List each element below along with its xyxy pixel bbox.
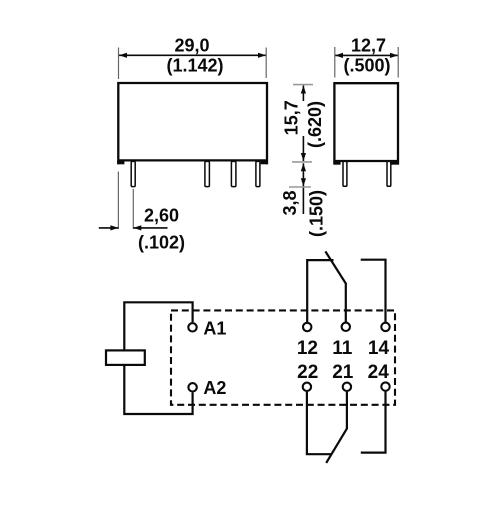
terminal 24 xyxy=(381,382,389,390)
coil wire bottom xyxy=(124,365,192,415)
right foot of side view case xyxy=(261,160,268,164)
pin 1 of side view xyxy=(131,161,135,186)
dimension 3,8 vertical line with arrows xyxy=(302,163,304,214)
svg-text:12: 12 xyxy=(297,338,318,359)
extension line left 12,7 xyxy=(334,47,336,78)
svg-text:14: 14 xyxy=(368,338,390,359)
arrow right of 29,0 xyxy=(258,53,266,58)
svg-text:22: 22 xyxy=(297,362,318,383)
svg-text:24: 24 xyxy=(368,362,390,383)
svg-text:29,0: 29,0 xyxy=(174,36,209,56)
dimension 15,7 vertical line upper segment with up arrow xyxy=(302,86,304,102)
tick at case bottom for 15,7 xyxy=(292,161,312,163)
contact 24 wire and fixed bar xyxy=(361,392,386,453)
left foot of side view case xyxy=(117,160,124,164)
svg-text:2,60: 2,60 xyxy=(144,206,179,226)
dimension line right 2,60 with arrow xyxy=(133,227,167,229)
extension line below pin 1 xyxy=(132,189,134,229)
dimension line 29,0 xyxy=(119,54,266,56)
dimension line left 2,60 with arrow xyxy=(99,227,119,229)
terminal 14 xyxy=(381,323,389,331)
svg-text:11: 11 xyxy=(332,338,353,359)
relay case side view (29.0mm outline) xyxy=(118,83,267,164)
terminal 12 xyxy=(303,323,311,331)
extension line right 12,7 xyxy=(397,47,399,78)
svg-text:(1.142): (1.142) xyxy=(166,56,223,76)
terminal 11 xyxy=(342,323,350,331)
tick at case top for 15,7 xyxy=(293,84,313,86)
contact 11 movable arm xyxy=(325,251,345,322)
pin 2 of side view xyxy=(205,161,210,186)
contact 14 wire and fixed bar xyxy=(361,260,386,322)
svg-text:(.500): (.500) xyxy=(343,56,390,76)
tick at pin bottom for 3,8 xyxy=(289,186,311,188)
svg-text:A1: A1 xyxy=(203,319,226,339)
svg-text:21: 21 xyxy=(332,362,354,383)
contact 21 movable arm xyxy=(326,392,347,463)
svg-text:(.150): (.150) xyxy=(307,190,327,237)
pin 3 of side view xyxy=(231,161,236,186)
svg-text:12,7: 12,7 xyxy=(351,36,386,56)
dimension 15,7 vertical line lower segment with down arrow xyxy=(302,136,304,161)
terminal A2 xyxy=(188,383,196,391)
arrow left of 29,0 xyxy=(119,53,127,58)
right pin of end view xyxy=(387,161,391,186)
contact 12 wire and fixed bar xyxy=(307,260,333,322)
left pin of end view xyxy=(343,161,347,186)
left foot of end view case xyxy=(333,161,340,165)
coil wire top xyxy=(124,302,192,351)
terminal 22 xyxy=(303,383,311,391)
extension line below case left edge xyxy=(117,172,119,230)
svg-text:A2: A2 xyxy=(203,378,226,398)
relay case end view (12.7mm outline) xyxy=(334,83,398,164)
pin 4 of side view xyxy=(256,161,260,186)
contact 22 wire and fixed bar xyxy=(307,392,332,454)
arrow left of 12,7 xyxy=(335,53,343,58)
coil xyxy=(106,350,145,365)
right foot of end view case xyxy=(391,161,399,165)
extension line right 29,0 xyxy=(265,48,267,79)
extension line left 29,0 xyxy=(118,48,120,80)
terminal A1 xyxy=(188,323,196,331)
svg-text:3,8: 3,8 xyxy=(280,190,300,215)
arrow right of 12,7 xyxy=(390,53,398,58)
dimension line 12,7 xyxy=(335,54,398,56)
terminal 21 xyxy=(343,383,351,391)
svg-text:(.102): (.102) xyxy=(138,233,185,253)
svg-text:15,7: 15,7 xyxy=(282,100,302,135)
dashed relay body outline in schematic xyxy=(171,310,395,404)
svg-text:(.620): (.620) xyxy=(305,101,325,148)
